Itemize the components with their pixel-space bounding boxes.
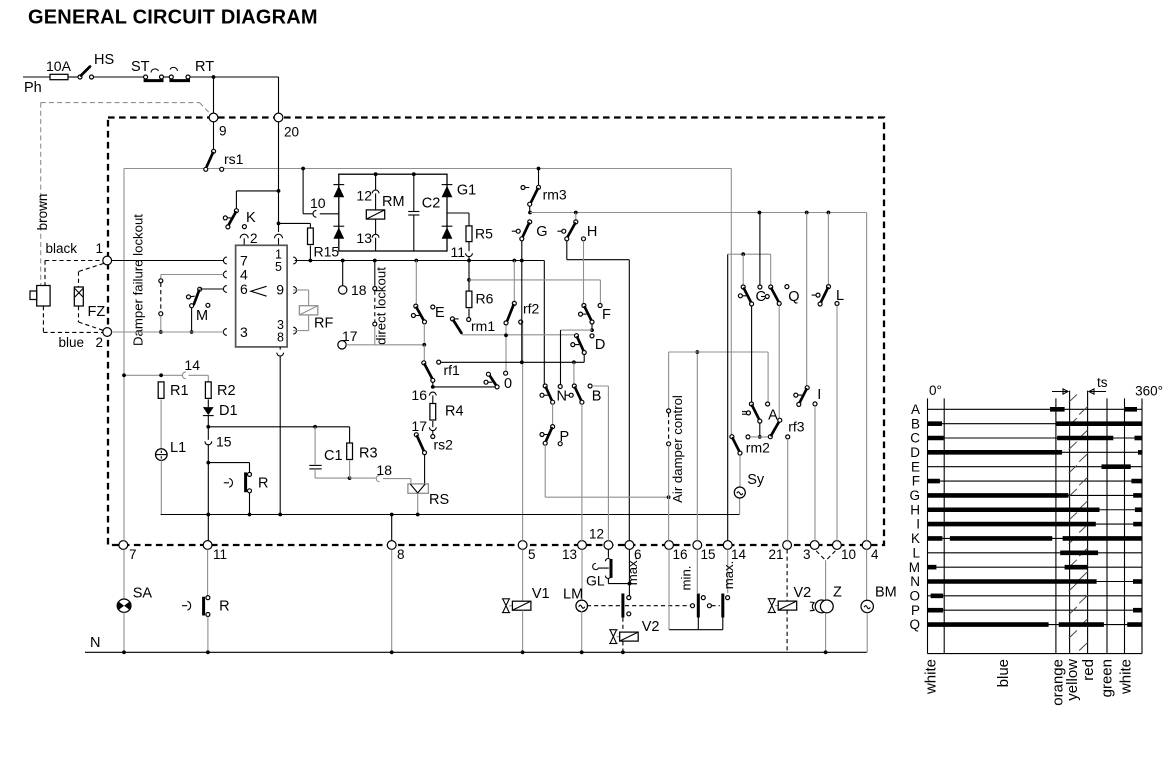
plug connector	[37, 286, 50, 307]
chart bars	[1050, 407, 1065, 412]
resistor R4	[430, 404, 436, 421]
svg-text:green: green	[1099, 659, 1116, 697]
svg-text:17: 17	[411, 418, 427, 434]
svg-text:0°: 0°	[929, 383, 942, 398]
svg-text:N: N	[90, 635, 100, 651]
wire terminal 8 to N	[391, 549, 393, 652]
node 2	[103, 328, 112, 337]
wire 14 row	[124, 374, 182, 376]
resistor R6	[468, 261, 470, 280]
svg-text:C: C	[910, 431, 920, 446]
svg-text:RS: RS	[429, 492, 449, 508]
svg-text:R4: R4	[445, 404, 464, 420]
svg-text:C1: C1	[324, 448, 343, 464]
switch H	[575, 213, 577, 220]
svg-text:V1: V1	[532, 586, 550, 602]
svg-text:20: 20	[284, 125, 299, 140]
wire 17 to E column	[346, 344, 424, 346]
node 6 (terminal)	[625, 541, 634, 550]
svg-text:E: E	[911, 459, 920, 474]
wire G column down	[521, 261, 523, 363]
svg-text:H: H	[910, 502, 920, 517]
valve V1	[522, 549, 524, 600]
node 9	[209, 113, 218, 122]
connector 12	[375, 174, 377, 190]
hatched column	[1069, 395, 1077, 403]
wire main line (pins 7 / 1-5)	[112, 260, 224, 262]
air damper control column	[668, 352, 670, 409]
svg-text:V2: V2	[794, 585, 812, 601]
svg-text:G: G	[536, 224, 547, 240]
switch rm3	[538, 169, 540, 186]
svg-text:15: 15	[216, 434, 232, 450]
node 5 (terminal)	[518, 541, 527, 550]
svg-text:yellow: yellow	[1064, 659, 1081, 701]
node 11 (terminal)	[203, 541, 212, 550]
svg-text:18: 18	[351, 282, 367, 298]
wire black dashed	[45, 260, 103, 262]
lamp L1	[156, 449, 168, 461]
resistor R3	[315, 477, 350, 479]
wire 18 to RS	[376, 475, 379, 481]
wire rm1 row	[462, 334, 575, 336]
svg-text:blue: blue	[995, 659, 1012, 687]
svg-text:R15: R15	[314, 244, 340, 260]
svg-text:rs2: rs2	[434, 437, 454, 453]
diode (box left bottom)	[333, 225, 344, 227]
node 7 (terminal)	[119, 541, 128, 550]
connector 13	[375, 219, 377, 234]
fuse 10A	[50, 74, 68, 79]
wire pin 4	[161, 274, 224, 276]
svg-text:N: N	[557, 389, 567, 405]
switch K	[234, 209, 238, 213]
svg-text:M: M	[196, 308, 208, 324]
connector 16	[429, 392, 436, 395]
svg-text:C2: C2	[422, 196, 441, 212]
flame sensor FZ	[79, 264, 104, 272]
svg-text:8: 8	[277, 331, 284, 345]
svg-text:R: R	[258, 476, 268, 492]
switch I	[806, 213, 808, 386]
svg-text:blue: blue	[58, 335, 84, 350]
switch HS	[78, 75, 82, 79]
lamp BM	[866, 549, 868, 600]
svg-text:G1: G1	[457, 183, 476, 199]
wire rail y212	[530, 212, 867, 214]
wire rf1 contact row (to D/N/B)	[441, 361, 585, 363]
svg-text:F: F	[602, 307, 611, 323]
switch G	[528, 220, 532, 224]
air damper contacts min/max	[691, 604, 695, 608]
wire pin 3	[112, 331, 224, 333]
svg-text:rm2: rm2	[746, 440, 770, 456]
svg-text:5: 5	[275, 260, 282, 274]
svg-text:Damper failure lockout: Damper failure lockout	[131, 214, 146, 346]
svg-text:G: G	[909, 488, 920, 503]
wire C to A	[751, 306, 753, 402]
svg-text:H: H	[587, 224, 597, 240]
svg-text:SA: SA	[133, 586, 153, 602]
svg-text:direct lockout: direct lockout	[374, 267, 389, 345]
svg-text:I: I	[916, 517, 920, 532]
svg-text:K: K	[911, 531, 920, 546]
svg-text:L1: L1	[170, 440, 186, 456]
svg-text:12: 12	[356, 188, 372, 204]
alarm Sy	[739, 455, 741, 487]
resistor R1	[158, 382, 164, 399]
svg-text:max.: max.	[625, 557, 640, 586]
svg-text:red: red	[1080, 659, 1097, 681]
switch P	[552, 404, 554, 424]
wire middle contact	[759, 213, 761, 286]
svg-text:P: P	[911, 603, 920, 618]
switch F	[582, 304, 586, 308]
switch M	[198, 287, 202, 291]
svg-text:R1: R1	[170, 383, 189, 399]
node 21 (terminal)	[783, 541, 792, 550]
switch rf3	[768, 435, 772, 439]
rectifier/relay box RM	[339, 174, 447, 251]
svg-text:0: 0	[504, 376, 512, 392]
svg-text:rm1: rm1	[471, 318, 495, 334]
wire F junction	[561, 329, 593, 331]
svg-text:rf2: rf2	[523, 301, 540, 317]
capacitor C1	[314, 427, 316, 465]
lamp SA	[123, 549, 125, 599]
wire rail y168	[124, 168, 732, 170]
svg-text:D: D	[595, 337, 605, 353]
svg-text:V2: V2	[642, 619, 660, 635]
node 15 (terminal)	[693, 541, 702, 550]
direct lockout jumper	[374, 261, 376, 287]
wire 10 feed	[302, 169, 304, 214]
svg-text:rm3: rm3	[543, 187, 567, 203]
wire C/Q feed row	[728, 253, 771, 255]
svg-text:14: 14	[731, 547, 747, 562]
node 14 (terminal)	[723, 541, 732, 550]
svg-text:Sy: Sy	[747, 472, 765, 488]
triac RS	[408, 484, 429, 493]
svg-text:RT: RT	[195, 59, 214, 75]
svg-text:GL: GL	[586, 573, 605, 589]
svg-text:11: 11	[450, 244, 465, 260]
switch B	[573, 362, 575, 384]
switch N	[543, 384, 547, 388]
wire brown dashed	[41, 102, 200, 104]
chart grid	[927, 398, 929, 653]
svg-text:12: 12	[589, 527, 604, 542]
svg-text:R3: R3	[359, 446, 378, 462]
svg-text:HS: HS	[94, 52, 114, 68]
svg-text:BM: BM	[875, 585, 897, 601]
valve V2 (second)	[786, 549, 788, 600]
svg-text:R2: R2	[217, 383, 236, 399]
wire fuse to HS	[68, 76, 79, 78]
svg-text:GENERAL CIRCUIT DIAGRAM: GENERAL CIRCUIT DIAGRAM	[28, 7, 318, 29]
wire B contact to terminal 12	[592, 385, 608, 387]
wire ST to RT	[164, 76, 170, 78]
connector 17	[432, 421, 434, 427]
svg-text:K: K	[246, 210, 256, 226]
svg-text:17: 17	[342, 328, 358, 344]
svg-text:F: F	[912, 474, 920, 489]
relay RF	[293, 289, 308, 291]
svg-text:21: 21	[768, 547, 783, 562]
node 12 (terminal)	[604, 541, 613, 550]
svg-text:RF: RF	[314, 316, 333, 332]
wire to terminal 5	[522, 324, 524, 541]
node 17	[338, 341, 346, 349]
svg-text:3: 3	[803, 547, 811, 562]
node 20	[274, 113, 283, 122]
node 13 (terminal)	[578, 541, 587, 550]
svg-text:white: white	[1118, 659, 1135, 695]
wire rf1 to 0-switch	[432, 382, 434, 387]
wire down to node 20	[278, 77, 280, 113]
svg-text:RM: RM	[382, 194, 405, 210]
svg-text:7: 7	[129, 547, 137, 562]
svg-text:10: 10	[310, 195, 326, 211]
wire RT to node 20 column	[190, 76, 279, 78]
node 10 (terminal)	[833, 541, 842, 550]
svg-text:R5: R5	[475, 226, 493, 242]
wire D1 row to C1/R3	[208, 426, 349, 428]
svg-text:3: 3	[240, 324, 248, 340]
switch rs2	[414, 433, 418, 437]
wire N line	[85, 651, 867, 653]
svg-text:D: D	[910, 445, 920, 460]
svg-text:Air damper control: Air damper control	[670, 395, 685, 503]
wire plug bottom dashed	[42, 306, 44, 332]
wire rs2 to RS	[424, 455, 426, 484]
dashed border box	[108, 118, 884, 546]
svg-text:16: 16	[673, 547, 688, 562]
wire internal bottom bus	[161, 514, 740, 516]
wire rf2 to 0	[505, 325, 507, 371]
switch D	[575, 334, 579, 338]
connector 15	[207, 427, 209, 440]
svg-text:Z: Z	[833, 585, 842, 601]
svg-text:4: 4	[871, 547, 879, 562]
wire R6 to F contact	[469, 279, 600, 281]
node 3 (terminal)	[810, 541, 819, 550]
svg-text:13: 13	[562, 547, 577, 562]
switch E	[415, 261, 417, 305]
svg-text:LM: LM	[563, 587, 583, 603]
node 16 (terminal)	[665, 541, 674, 550]
svg-text:360°: 360°	[1135, 384, 1163, 399]
svg-text:A: A	[911, 402, 920, 417]
svg-text:18: 18	[376, 462, 392, 478]
wire K branch	[236, 190, 278, 192]
wire P to air-damper column	[544, 445, 546, 497]
svg-text:rs1: rs1	[224, 151, 244, 167]
svg-text:rf3: rf3	[788, 419, 805, 435]
capacitor C2	[413, 174, 415, 211]
svg-text:2: 2	[250, 231, 258, 246]
svg-text:M: M	[909, 560, 920, 575]
wire HS to ST	[94, 76, 144, 78]
svg-text:L: L	[912, 545, 920, 560]
svg-text:Q: Q	[909, 617, 920, 632]
svg-text:5: 5	[528, 547, 536, 562]
svg-text:P: P	[560, 429, 570, 445]
svg-text:O: O	[909, 588, 920, 603]
svg-text:B: B	[911, 416, 920, 431]
switch L	[827, 213, 829, 285]
switch Q	[770, 254, 772, 285]
switch 0	[504, 371, 508, 375]
svg-text:I: I	[817, 387, 821, 403]
svg-text:15: 15	[701, 547, 716, 562]
wire rm2 contact row	[746, 435, 750, 439]
svg-text:14: 14	[184, 357, 200, 373]
resistor R15	[279, 222, 311, 224]
svg-text:Q: Q	[788, 289, 799, 305]
wire to terminal 14	[727, 254, 729, 541]
svg-text:E: E	[435, 305, 445, 321]
svg-text:ST: ST	[131, 59, 150, 75]
switch A	[749, 402, 753, 406]
op-amp/IC control unit	[236, 245, 288, 347]
wire down to node 9	[213, 77, 215, 113]
switch rs1	[213, 122, 215, 149]
svg-text:min.: min.	[679, 566, 694, 591]
switch rf1	[422, 361, 426, 365]
svg-text:D1: D1	[219, 403, 238, 419]
svg-text:Ph: Ph	[24, 80, 42, 96]
svg-text:ts: ts	[1097, 375, 1108, 390]
diode G1 bottom	[442, 225, 453, 227]
svg-text:9: 9	[276, 282, 284, 298]
svg-text:brown: brown	[35, 194, 50, 231]
pushbutton R (external)	[207, 549, 209, 595]
contact GL	[607, 549, 609, 557]
wire B to terminal 13	[581, 404, 583, 541]
svg-text:R6: R6	[476, 291, 494, 307]
diode (box left top)	[333, 184, 344, 186]
switch rm1	[450, 317, 454, 321]
wire terminal 6 column	[628, 549, 630, 595]
svg-text:9: 9	[219, 124, 227, 139]
svg-text:16: 16	[411, 387, 427, 403]
svg-text:2: 2	[95, 335, 103, 350]
connector 11	[468, 242, 470, 252]
switch C	[742, 254, 744, 285]
svg-text:rf1: rf1	[444, 362, 461, 378]
diode G1 top	[442, 184, 453, 186]
svg-text:B: B	[592, 389, 602, 405]
wire Ph to fuse	[23, 76, 50, 78]
node 8 (terminal)	[387, 541, 396, 550]
pin 8 bottom exit	[279, 347, 281, 350]
buzzer Z	[816, 551, 825, 560]
wire Q to rf3	[778, 306, 780, 419]
svg-text:A: A	[768, 408, 778, 424]
switch ST	[144, 75, 148, 79]
svg-text:10: 10	[841, 547, 856, 562]
diode D1	[207, 399, 209, 407]
resistor R5	[447, 212, 469, 214]
svg-text:N: N	[910, 574, 920, 589]
switch rm2	[730, 169, 732, 435]
svg-text:white: white	[923, 659, 940, 695]
svg-text:black: black	[45, 241, 77, 256]
pin 2 connector	[242, 225, 246, 229]
lamp LM	[581, 549, 583, 600]
wire H contact to F	[583, 241, 585, 304]
switch rf2	[513, 261, 515, 302]
svg-text:1: 1	[95, 241, 103, 256]
wire node20 column	[278, 122, 280, 232]
node 1	[103, 256, 112, 265]
wire left gray vertical to terminal 7	[123, 169, 125, 541]
svg-text:6: 6	[240, 281, 248, 297]
node 4 (terminal)	[862, 541, 871, 550]
svg-text:FZ: FZ	[88, 304, 106, 320]
svg-text:10A: 10A	[46, 58, 72, 74]
node 18	[342, 261, 344, 286]
linked contact (gas valve max)	[627, 596, 631, 600]
pushbutton R (internal)	[208, 462, 249, 464]
svg-text:max.: max.	[721, 561, 736, 590]
damper failure lockout jumper	[160, 283, 162, 312]
relay coil RM	[366, 210, 384, 219]
valve V2 (first)	[622, 618, 624, 632]
svg-text:L: L	[836, 288, 844, 304]
switch RT	[169, 75, 173, 79]
svg-text:R: R	[219, 599, 229, 615]
resistor R2	[205, 382, 211, 399]
svg-text:8: 8	[397, 547, 405, 562]
svg-text:13: 13	[356, 230, 372, 246]
svg-text:11: 11	[213, 547, 227, 562]
